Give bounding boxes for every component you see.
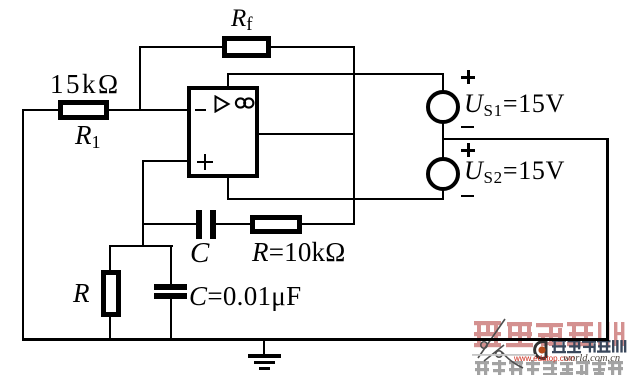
gap mask between C plates (202, 219, 210, 229)
wire: feedback vertical at output node (353, 46, 355, 225)
wire: US1 plus lead (442, 73, 444, 92)
resistor R (shunt) (101, 270, 121, 317)
label Rf (231, 6, 253, 31)
value label R=10kΩ (252, 239, 346, 266)
value label C=0.01μF (189, 283, 301, 310)
label US2=15V (464, 158, 565, 184)
wire: mid node horizontal to right bus (442, 138, 608, 140)
wire: C / R=10k chain horizontal (142, 223, 355, 225)
wire: R1 input horizontal (22, 109, 188, 111)
wire: RC branch horizontal (109, 245, 173, 247)
wire: non-inverting node vertical (142, 160, 144, 247)
wire: op-amp bottom supply vertical (227, 178, 229, 200)
wire: inverting-node vertical (139, 46, 141, 111)
wire: right vertical bus (606, 138, 609, 341)
label US1=15V (464, 91, 565, 117)
wire: op-amp output horizontal (257, 133, 355, 135)
capacitor C (series, right plate) (210, 210, 216, 239)
wire: R branch vertical upper (109, 245, 111, 271)
wire: C branch vertical upper (170, 245, 172, 285)
US2 minus sign (461, 195, 474, 197)
wire: top supply horizontal to US1 (227, 73, 444, 75)
resistor R1 (58, 100, 109, 120)
watermark (470, 314, 628, 375)
capacitor C=0.01uF top plate (154, 284, 187, 290)
wire: R branch vertical lower (109, 315, 111, 340)
svg-text:world.com.cn: world.com.cn (563, 353, 620, 364)
watermark: d logo (535, 339, 546, 359)
US2 plus sign (461, 149, 475, 152)
watermark: antenna sketch (478, 319, 523, 368)
capacitor C (series, left plate) (196, 210, 202, 239)
resistor R=10k (series) (250, 215, 302, 234)
wire: op-amp top supply vertical (227, 73, 229, 87)
label C (series capacitor) (190, 239, 209, 268)
wire: C branch vertical lower (170, 298, 172, 340)
op-amp infinity gain symbol (234, 95, 256, 111)
US1 plus sign (461, 76, 475, 79)
wire: bottom ground bus (22, 338, 609, 341)
ground (263, 340, 265, 355)
op-amp inverting input marker - (195, 109, 206, 111)
op-amp U1 (187, 86, 259, 178)
label R (shunt) (73, 280, 90, 307)
resistor Rf (222, 36, 271, 58)
op-amp gain triangle (214, 95, 232, 113)
wire: non-inverting input horizontal (142, 160, 188, 162)
source US1 (426, 90, 460, 124)
label R1 (75, 122, 101, 149)
wire: Rf horizontal (139, 46, 355, 48)
US1 minus sign (461, 126, 474, 128)
capacitor C=0.01uF bottom plate (154, 293, 187, 299)
wire: US2 minus lead (442, 189, 444, 200)
wire: US1 to US2 vertical (442, 122, 444, 159)
op-amp non-inverting input marker + (197, 161, 213, 163)
wire: bottom supply horizontal (227, 198, 444, 200)
source US2 (426, 157, 460, 191)
value label 15kΩ (50, 71, 121, 98)
wire: left vertical bus (22, 109, 24, 340)
